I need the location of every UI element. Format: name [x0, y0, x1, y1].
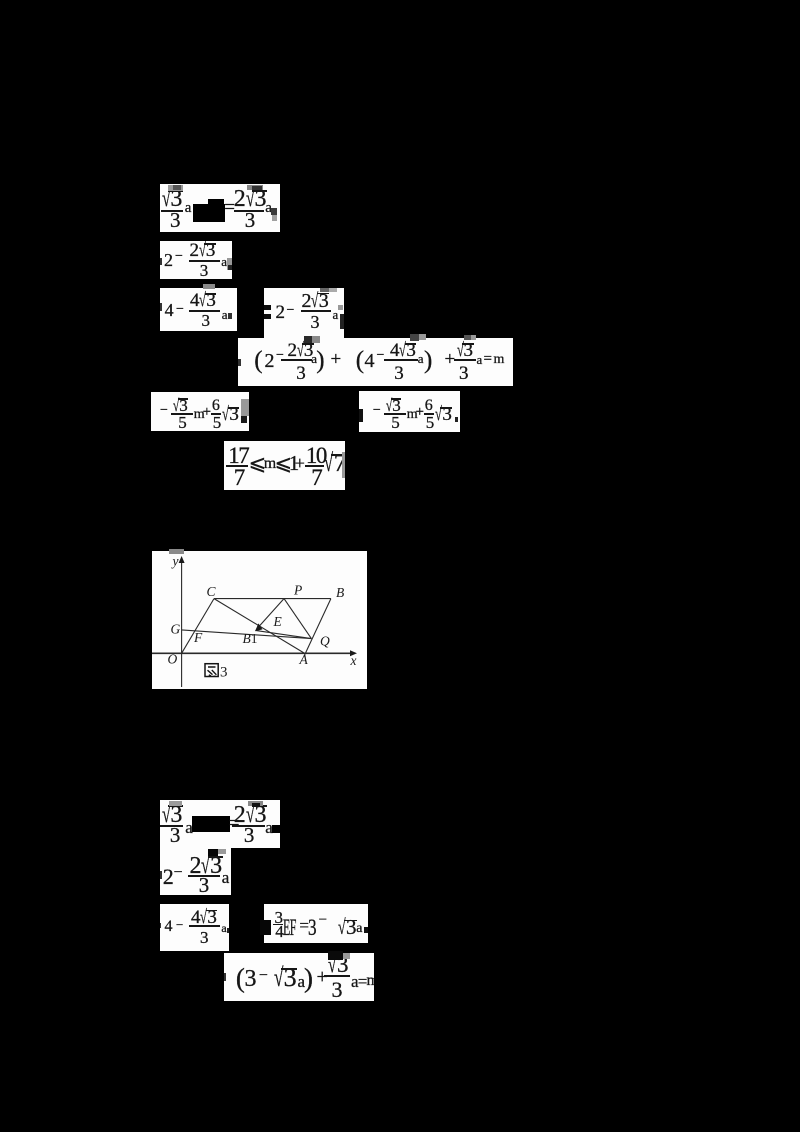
- svg-text:G: G: [171, 622, 181, 637]
- svg-text:F: F: [193, 630, 203, 645]
- svg-text:E: E: [273, 614, 283, 629]
- svg-text:C: C: [207, 584, 217, 599]
- svg-text:O: O: [168, 652, 178, 667]
- svg-text:A: A: [299, 652, 309, 667]
- svg-text:P: P: [293, 583, 302, 598]
- svg-text:y: y: [171, 554, 179, 569]
- svg-text:B: B: [336, 585, 344, 600]
- svg-text:B1: B1: [243, 631, 258, 646]
- svg-text:x: x: [350, 653, 357, 668]
- svg-text:Q: Q: [320, 634, 330, 649]
- svg-text:3: 3: [220, 665, 228, 681]
